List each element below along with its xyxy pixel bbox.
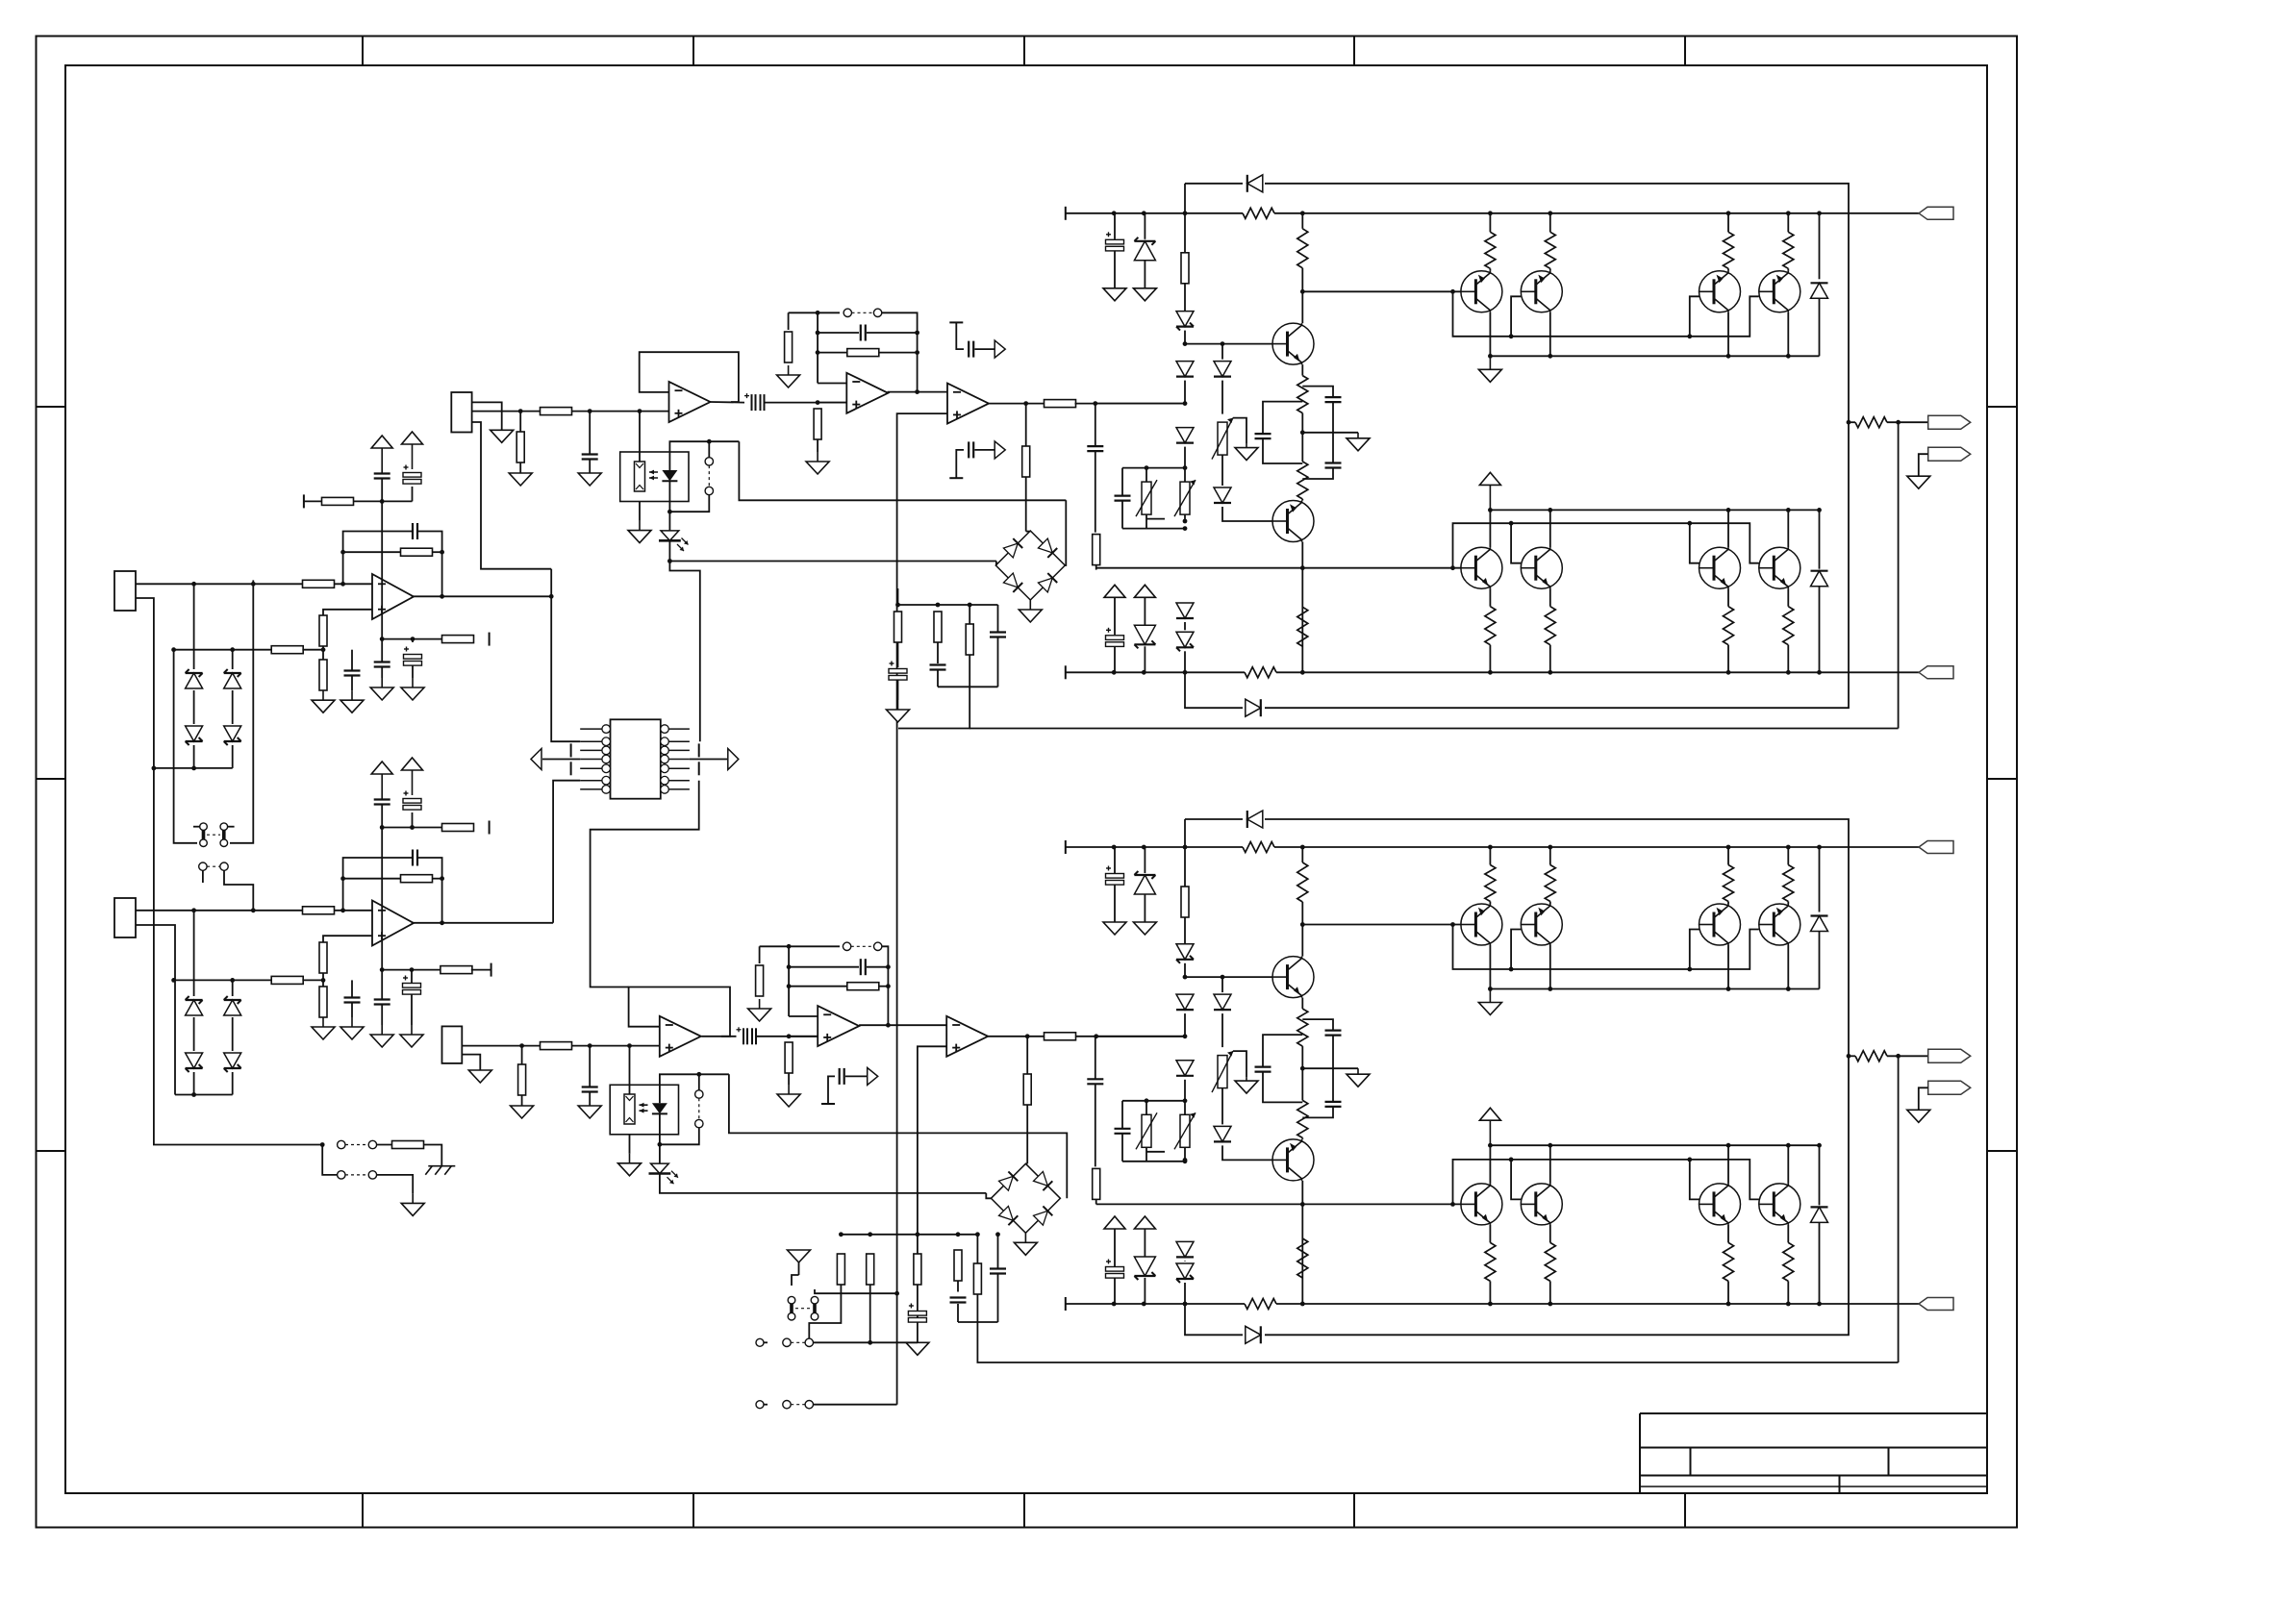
wire J4 shield [462,1055,480,1070]
border tick left [37,1150,66,1152]
junction [916,1232,920,1237]
diode D6 [186,1053,203,1072]
zener DZ1 ch2 [1134,871,1155,894]
wire CF1 ch2 [1095,1037,1096,1080]
wire RT3a ch1 [1727,213,1729,233]
ground G10 [806,452,829,474]
ground G25 [511,1106,534,1118]
wire U1B plus [323,936,372,942]
junction [1488,1143,1493,1148]
wire supply row ch2 [382,827,442,829]
wire fb res right [879,352,918,354]
jumper JP7 [695,1090,703,1128]
wire RT2a ch1 [1549,213,1551,233]
terminal stub T13 [821,1103,835,1105]
junction [1112,670,1117,675]
wire RT3b ch2 [1727,902,1729,905]
wire R16b dn [817,439,818,452]
wire U2 fb box [640,352,739,402]
wire base riser b2 ch2 [1511,1160,1521,1200]
diode DC1 ch1 [1214,362,1231,377]
junction [1300,565,1305,570]
wire R19 to driver [1075,403,1186,405]
trimmer RV3 ch2 [1174,1112,1196,1149]
wire U1B out [412,922,553,924]
wire divider tap2 [174,979,272,981]
wire U3 minus row [818,383,846,385]
junction [1509,334,1514,338]
wire col2 top ch2 [1185,976,1272,978]
wire B2 out [859,1024,946,1026]
junction [1726,845,1731,850]
junction [1142,211,1146,215]
wire QT3 e ch1 [1727,312,1729,357]
resistor RE2 ch1 [1545,607,1555,645]
transistor QB4 ch1 [1759,547,1800,588]
wire CF1 ch1 [1095,404,1096,447]
junction [1817,1143,1822,1148]
resistor R21 [894,612,902,642]
capacitor C23 [861,959,866,975]
wire C10 up [351,980,353,997]
wire CQ2b ch2 [1302,1107,1333,1118]
jumper JP1 [199,862,229,870]
wire CC1 dn ch2 [1263,1072,1302,1103]
wire B3 plus riser [918,1046,946,1342]
title block divider c [1839,1476,1841,1494]
diode D3 [224,669,241,688]
wire subbox top ch2 [1122,1100,1168,1102]
wire RV1 wiper ch1 [1233,418,1246,444]
wire RE1a ch1 [1489,588,1491,607]
junction [787,944,792,949]
wire R22 dn [937,642,939,663]
junction [1183,526,1188,531]
IC U5 pin 2 left [580,737,610,746]
junction [1183,1159,1188,1163]
resistor RO1 ch1 [1855,417,1887,428]
wire C5 dn [381,667,383,679]
op-amp B2 [818,1006,859,1046]
junction [1183,1158,1188,1162]
wire out takeoff ch2 [1849,1055,1855,1057]
border tick bottom [1023,1493,1025,1528]
resistor RE3 ch2 [1724,1242,1734,1281]
wire diode rail bot ch2 [1185,1304,1243,1335]
wire XQ a ch1 [1301,213,1303,229]
wire fb2 midr [432,878,442,880]
wire IC pin13 down [591,781,699,987]
junction [1847,1054,1851,1059]
IC U5 pin 13 right [661,776,690,785]
wire U2 plus row to LDR [639,412,641,462]
terminal stub T5 [570,743,572,757]
power arrow PD2 ch1 [1134,585,1155,597]
polarized capacitor C2 [403,465,421,485]
junction [191,908,196,912]
wire R32 dn [957,1281,959,1292]
junction [839,1232,843,1237]
transistor QT1 ch2 [1461,904,1502,945]
connector flag OUT+ ch2 [1928,1049,1971,1062]
wire R22 bot [937,670,939,687]
ground G21 [491,430,514,442]
resistor RT4 ch1 [1783,232,1794,268]
capacitor C19 [930,665,946,670]
wire jp8 left [760,1341,768,1343]
wire R36 dn [521,1095,523,1106]
wire QB2c ch1 [1549,510,1551,547]
wire emitter bus top ch2 [1490,988,1819,990]
wire RV2a ch2 [1145,1101,1147,1115]
wire RT4b ch2 [1787,902,1789,905]
border tick top [362,37,364,66]
rail flag V- ch1 [1919,666,1953,679]
transistor Q1 ch1 [1272,323,1314,364]
junction [1687,521,1692,526]
junction [1300,1066,1305,1071]
wire C27 up [997,1235,999,1269]
transistor QB3 ch1 [1699,547,1741,588]
border tick bottom [1353,1493,1355,1528]
wire base riser t3 ch2 [1690,930,1699,970]
diode DT2 ch1 [1811,571,1828,587]
title block divider b [1888,1448,1890,1476]
ground G16 [748,999,771,1021]
transistor QB2 ch1 [1521,547,1562,588]
border tick top [1353,37,1355,66]
wire LED anode up [669,441,739,470]
junction [191,766,196,771]
junction [320,1142,325,1147]
resistor R14 [441,966,472,974]
wire jp5 top [708,441,710,458]
title block row line 3 [1640,1486,1987,1487]
wire CQ2b ch1 [1302,468,1333,480]
ground G11 [777,365,800,387]
op-amp U1A [372,574,414,619]
wire C16 arrow [974,348,995,350]
border tick top [1684,37,1686,66]
wire J4 signal row [462,1045,661,1047]
wire chain a ch1 [1184,213,1186,253]
wire bias vertical ch2 [381,828,383,970]
resistor R26 [847,983,879,990]
capacitor CQ1 ch1 [1325,397,1342,402]
junction [1786,508,1791,512]
wire stack mid B [232,690,234,724]
polarized capacitor C25 [908,1304,926,1323]
wire bank2 bottom [958,1321,998,1323]
optocoupler U7 LDR [624,1094,635,1124]
wire col2 a ch1 [1221,381,1223,414]
wire fb left vert [817,312,818,383]
junction [816,311,820,315]
IC U5 pin 6 left [580,776,610,785]
wire CB1b ch2 [1121,1134,1123,1162]
junction [588,1043,592,1048]
junction [1548,1302,1552,1307]
wire V+ rail ch2 [1066,846,1243,848]
junction [518,409,523,413]
wire LED to IC [669,562,699,742]
wire subbox bot ch1 [1122,528,1185,530]
resistor R30 [867,1254,874,1285]
wire lower row2 [382,969,441,971]
wire DT2b ch2 [1819,1222,1821,1304]
wire fb2 topr [418,858,442,923]
junction [787,1034,792,1038]
border tick bottom [362,1493,364,1528]
wire CQ1 ch1 [1332,402,1334,433]
zener DB7 ch1 [1176,632,1194,651]
wire bank stub [897,588,899,605]
capacitor C24 [840,1068,844,1085]
wire chain f ch1 [1184,622,1186,630]
wire fb2 top [343,858,412,911]
wire stack col A [193,584,195,669]
resistor R11 [319,942,327,973]
wire RE1b ch1 [1489,645,1491,673]
junction [411,637,415,641]
wire stack2 bottom row [175,1094,233,1096]
wire RT4a ch1 [1787,213,1789,233]
wire feedback top [343,532,412,585]
IC U5 pin 11 right [661,755,690,763]
wire CQ2 ch2 [1332,1068,1334,1102]
connector flag OUT- ch2 [1928,1081,1971,1094]
junction [1142,845,1146,850]
rail V- ch2 [1065,1297,1067,1311]
wire subbox top ch1 [1122,467,1168,469]
junction [549,594,554,599]
wire RV2b ch2 [1145,1147,1147,1162]
IC U5 pin 4 left [580,755,610,763]
wire C4 up [351,650,353,671]
transistor QT3 ch1 [1699,271,1741,312]
junction [1509,1158,1514,1162]
wire chain e ch1 [1184,447,1186,521]
wire jp5 bot [669,495,709,512]
wire RE2a ch1 [1549,588,1551,607]
title block divider a [1690,1448,1692,1476]
wire R36 up [521,1046,523,1064]
resistor R9 [442,824,474,832]
wire QB1c ch2 [1489,1145,1491,1184]
wire B1 plus row to LDR [629,1046,631,1094]
wire V+ rail b ch2 [1274,846,1919,848]
border outer frame [37,37,2018,1528]
junction [1726,987,1731,991]
wire DT1b ch1 [1819,298,1821,356]
junction [1509,967,1514,972]
ground G19b [906,1342,929,1355]
resistor R33 [973,1263,981,1294]
junction [1548,1143,1552,1148]
wire jp7 bot [660,1128,699,1145]
wire jumper dn2 [224,870,253,911]
junction [1548,987,1552,991]
optocoupler U6 LED [649,470,677,482]
junction [1183,1302,1188,1307]
wire J3 pin3 [472,422,552,569]
junction [340,550,345,555]
capacitor C11 [374,1000,390,1005]
wire base feed bot ch2 [1096,1203,1461,1205]
junction [787,964,792,969]
coupling capacitors C21 C22 [737,1027,757,1044]
ground G3 [370,678,393,700]
wire relay feed right [230,580,253,842]
op-amp U3 [846,373,888,413]
rail flag V+ ch1 [1919,207,1953,219]
junction [588,409,592,413]
wire J2 pin2 [136,925,175,1095]
wire R15 elbow [423,1145,441,1166]
wire subbox ch2 [1168,1100,1185,1102]
junction [380,825,385,830]
diode DB4 ch1 [1176,362,1194,377]
ground G7 [370,1025,393,1047]
junction [1450,565,1455,570]
junction [638,409,642,413]
capacitor C26 [950,1298,967,1303]
wire supply row 2 [354,500,413,502]
resistor RT3 ch2 [1724,865,1734,902]
wire QT4 e ch2 [1787,945,1789,989]
zener DZ2 ch2 [1134,1257,1155,1280]
wire diode rail top ch2 [1184,819,1186,847]
junction [152,766,157,771]
wire base feed top ch1 [1302,290,1461,292]
wire B2 plus node [788,1036,818,1037]
transistor QT4 ch1 [1759,271,1800,312]
junction [1025,1034,1030,1038]
wire XQ f ch2 [1301,1181,1303,1304]
junction [1300,1202,1305,1207]
resistor R27 [1045,1033,1076,1040]
wire fb2 cap row [789,966,859,968]
wire sw down [322,1145,337,1175]
junction [1726,1302,1731,1307]
junction [816,400,820,405]
resistor RF1 ch2 [1093,1168,1100,1199]
border inner frame [65,65,1987,1493]
resistor RQ4 ch1 [1297,607,1308,646]
wire input node ch1 [1095,403,1185,405]
wire lower row R [413,638,442,640]
optocoupler U6 LDR [635,462,645,491]
terminal stub T10 [949,321,963,323]
junction [1183,401,1188,406]
resistor R29 [837,1254,844,1285]
wire DZ2 ch1 [1144,646,1145,672]
resistor RQ3 ch2 [1297,1100,1308,1137]
junction [380,967,385,972]
wire col2 b ch2 [1221,1088,1223,1125]
capacitor C28 [582,455,598,460]
wire DT2b ch1 [1819,587,1821,673]
border tick left [37,406,66,408]
wire XQ b ch1 [1301,268,1303,323]
junction [1112,1302,1117,1307]
wire QB3c ch1 [1727,510,1729,547]
junction [380,637,385,641]
wire DT1a ch2 [1819,847,1821,912]
wire bank bottom [938,686,998,687]
wire chain g ch2 [1184,1283,1186,1304]
op-amp U2 [669,382,711,422]
wire S1 gnd2 [798,1262,800,1275]
polarized capacitor C12 [403,976,421,995]
junction [886,964,891,969]
diode D2 [186,726,203,745]
resistor R28 [1023,1074,1031,1105]
junction [1548,845,1552,850]
diode DB5 ch2 [1176,1061,1194,1076]
polarized capacitor C6 [404,647,422,666]
resistor R20 [1022,446,1030,477]
junction [1183,341,1188,346]
wire CD1 ch1 [1114,213,1116,239]
junction [1112,845,1117,850]
wire C28 up [589,412,591,455]
wire R4 to R5 [322,646,324,663]
wire diode rail top ch1 [1184,184,1186,213]
resistor RQ2 ch2 [1297,1009,1308,1046]
ground GT1 ch1 [1478,356,1501,382]
junction [1488,508,1493,512]
ground G24 [468,1070,491,1083]
resistor R37 [541,1042,572,1050]
wire NFB drop ch2 [1898,1056,1900,1362]
wire C4 gnd [351,676,353,691]
resistor RZ1 ch2 [1243,842,1274,853]
junction [1786,670,1791,675]
wire CQ2 ch1 [1332,433,1334,463]
wire divider tap [174,649,272,651]
junction [1112,211,1117,215]
wire caps to node [765,402,846,404]
junction [171,647,176,652]
wire chain g ch1 [1184,651,1186,672]
trimmer RV1 ch2 [1212,1051,1233,1092]
ground GD2 ch1 [1133,288,1156,301]
wire chain b ch1 [1184,284,1186,312]
wire DT2a ch1 [1819,510,1821,568]
junction [915,331,919,336]
diode DC1 ch2 [1214,994,1231,1010]
wire J1 pin2 [136,598,322,1145]
resistor R12 [319,987,327,1017]
wire bridge2 left [986,1193,991,1198]
wire CC1 up ch2 [1263,1035,1302,1067]
wire JP2 to R [377,1144,392,1146]
junction [1094,1034,1098,1038]
junction [1817,670,1822,675]
power arrow A4 [402,758,423,795]
wire col2 c ch2 [1222,1145,1272,1160]
wire R34 dn [519,462,521,473]
resistor RQ2 ch1 [1297,376,1308,413]
wire fb top right [882,312,918,391]
wire out takeoff ch1 [1849,421,1855,423]
wire stack bot A [193,745,195,768]
power arrow PD2 ch2 [1134,1216,1155,1229]
diode DB6 ch2 [1176,1241,1194,1257]
wire RF1 ch1 [1095,565,1097,570]
wire col2 b ch1 [1221,455,1223,486]
